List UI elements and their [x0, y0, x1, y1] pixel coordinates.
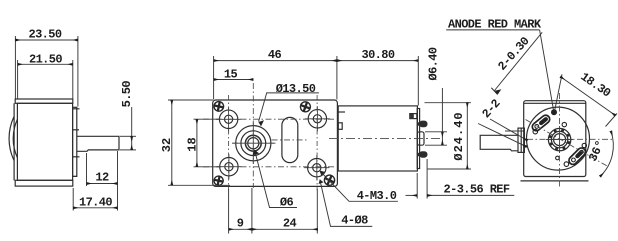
svg-text:Ø6.40: Ø6.40 — [427, 47, 441, 80]
angle arc 36 — [600, 131, 613, 177]
svg-text:Ø24.40: Ø24.40 — [452, 111, 466, 160]
mounting holes — [219, 110, 326, 177]
hole BR — [308, 159, 326, 177]
hole TL — [219, 110, 237, 128]
dim 18 — [194, 118, 221, 120]
dim 12 — [86, 153, 88, 186]
terminal upper — [420, 121, 427, 127]
right view dims — [446, 30, 617, 177]
boss solid crosshair — [233, 122, 275, 164]
terminal slot SE — [567, 146, 587, 166]
svg-text:Ø13.50: Ø13.50 — [276, 82, 316, 96]
svg-text:17.40: 17.40 — [79, 196, 112, 210]
svg-text:2-3.56 REF: 2-3.56 REF — [444, 183, 510, 197]
leader D6 — [255, 150, 298, 208]
svg-text:9: 9 — [237, 217, 244, 231]
motor can bulge arc — [9, 117, 14, 160]
left step line — [338, 111, 345, 113]
hole TR — [308, 110, 326, 128]
middle view texts — [160, 48, 397, 231]
dim 18.30 — [555, 74, 562, 110]
motor centerline — [329, 138, 443, 140]
centerlines middle view — [203, 83, 334, 190]
small circles around bearing — [533, 122, 587, 166]
dimensions of left view — [15, 36, 136, 211]
face plate tick 2 — [73, 156, 80, 158]
dim 30.80 — [417, 56, 419, 106]
anode leader — [446, 29, 539, 31]
rect bottom second line — [521, 180, 589, 182]
hole BL — [220, 158, 238, 176]
svg-text:32: 32 — [160, 138, 174, 152]
vline hole col right — [316, 95, 318, 190]
end cap ring — [417, 109, 419, 169]
motor can outer flat line — [13, 103, 15, 180]
shaft side — [480, 135, 518, 151]
dim 46 — [213, 56, 215, 100]
svg-text:2-2: 2-2 — [479, 97, 503, 121]
hline hole row bottom — [203, 166, 334, 168]
gearbox face plate strip — [73, 107, 77, 176]
leader 4-D8 — [320, 180, 373, 227]
boss hline — [232, 142, 276, 144]
svg-text:12: 12 — [95, 170, 109, 184]
svg-text:21.50: 21.50 — [29, 53, 62, 67]
svg-text:15: 15 — [224, 67, 238, 81]
svg-text:18.30: 18.30 — [578, 70, 613, 101]
top small tab — [410, 114, 417, 119]
terminal slot NW — [531, 114, 552, 133]
joint tab — [338, 123, 342, 130]
svg-text:5.50: 5.50 — [120, 81, 134, 108]
left view dim texts — [28, 28, 134, 210]
end boss — [417, 132, 424, 145]
svg-text:4-M3.0: 4-M3.0 — [357, 189, 397, 203]
shaft flange — [518, 128, 524, 152]
gearbox top outline — [213, 100, 338, 186]
leader 4-M3.0 — [320, 171, 398, 202]
svg-text:23.50: 23.50 — [28, 28, 61, 42]
rect inner top line — [524, 102, 586, 104]
hline hole row top — [203, 118, 334, 120]
screw TR — [299, 100, 312, 113]
terminal lower — [420, 152, 427, 157]
dim D24.40 — [425, 102, 472, 104]
svg-text:Ø6: Ø6 — [280, 195, 294, 209]
dim 32 — [168, 99, 213, 101]
motor dims — [406, 88, 515, 199]
top lid plate — [15, 99, 73, 103]
leader D13.50 — [259, 93, 319, 122]
motor can side outline — [17, 103, 72, 180]
vline hole col left — [228, 95, 230, 190]
right view centerlines — [526, 93, 615, 188]
svg-text:24: 24 — [283, 217, 297, 231]
mounting holes crosshairs — [216, 106, 330, 180]
svg-text:46: 46 — [268, 48, 282, 62]
bearing — [546, 126, 573, 153]
right view texts — [448, 18, 613, 164]
boss vline — [252, 83, 254, 188]
leader 2-2 — [478, 124, 527, 147]
dim D6.40 — [425, 131, 447, 133]
motor can circle — [527, 107, 590, 170]
anode dot — [551, 109, 557, 115]
face plate tick 1 — [73, 108, 80, 110]
svg-text:30.80: 30.80 — [361, 48, 394, 62]
center boss circles — [236, 126, 271, 161]
corner screws — [213, 100, 336, 187]
svg-text:18: 18 — [185, 137, 199, 151]
bottom lid plate — [15, 180, 73, 186]
dim 2-0.30 — [495, 32, 543, 90]
gearbox rear rect — [524, 101, 586, 177]
svg-text:ANODE RED MARK: ANODE RED MARK — [448, 18, 542, 32]
screw TL — [213, 101, 224, 112]
screw BL — [213, 175, 224, 186]
slot hline — [272, 139, 308, 141]
dim 5.50 — [120, 135, 136, 137]
dim 23.50 — [14, 36, 16, 99]
dim 9 and 24 — [228, 189, 230, 234]
screw BR — [323, 173, 337, 187]
output shaft side — [77, 136, 119, 151]
obround slot — [282, 117, 298, 162]
middle view dimensions — [168, 56, 418, 234]
motor body — [338, 106, 417, 171]
dim 17.40 — [72, 188, 74, 211]
svg-text:4-Ø8: 4-Ø8 — [341, 214, 368, 228]
dim 2-3.56 REF — [416, 173, 418, 199]
dim 21.50 — [17, 60, 19, 99]
dim 15 — [214, 79, 254, 81]
